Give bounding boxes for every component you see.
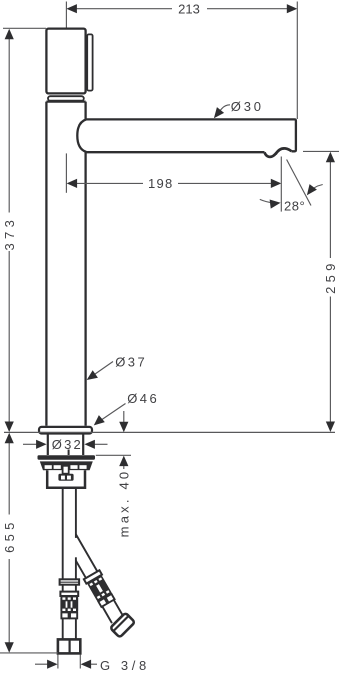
node max40 down arrow above counter	[119, 422, 128, 433]
hose diagonal crimp lower cells	[98, 598, 107, 607]
fixation seal serrations	[45, 465, 87, 469]
svg-text:213: 213	[178, 1, 200, 16]
node 213 left arrow	[66, 4, 77, 13]
svg-text:Ø30: Ø30	[231, 99, 264, 114]
hose tube lower	[63, 618, 76, 639]
wire dimension Ø32 tails	[23, 443, 108, 445]
hose diagonal braid dots bottom	[97, 590, 110, 599]
hose diagonal tube lower	[102, 600, 123, 623]
fixation clamp windows	[61, 476, 65, 480]
wire dimension G3/8 tails	[35, 663, 97, 665]
node Ø32 right arrow	[84, 440, 95, 449]
faucet spout fillet arc	[77, 119, 86, 151]
faucet pull rod stub	[68, 450, 70, 456]
wire extension line center axis below spout	[65, 153, 67, 192]
svg-text:Ø46: Ø46	[127, 391, 159, 406]
fixation seal trapezoid	[40, 461, 93, 470]
hose diagonal end nut	[110, 613, 135, 638]
svg-text:Ø32: Ø32	[52, 437, 83, 452]
fixation pull rod guide	[63, 466, 69, 474]
wire dimension line 198	[76, 182, 272, 184]
fixation washer black bar	[38, 455, 96, 460]
wire dimension line 213 horizontal at top	[76, 8, 287, 10]
node 259 bottom arrow	[326, 422, 335, 433]
hose tube between collar and crimp	[63, 585, 76, 592]
node 198 right arrow	[271, 179, 282, 188]
hose braid white slots middle	[66, 601, 68, 607]
hose braid white dots top	[62, 597, 76, 599]
wire leader line for Ø30	[217, 105, 230, 115]
hose collar nut	[60, 579, 80, 584]
node 213 right arrow	[287, 4, 298, 13]
node G3/8 left arrow	[47, 660, 58, 669]
faucet shank below counter	[47, 434, 49, 456]
hose braid block	[60, 596, 78, 612]
hose diagonal crimp collar	[84, 570, 102, 583]
svg-text:198: 198	[148, 176, 174, 191]
wire leader line for Ø46	[101, 404, 126, 421]
faucet aerator outlet wave	[265, 148, 292, 157]
svg-text:373: 373	[2, 216, 17, 251]
faucet escutcheon base plate	[39, 427, 92, 434]
faucet handle	[46, 29, 85, 94]
svg-text:28°: 28°	[284, 198, 305, 213]
faucet handle side ring	[87, 34, 92, 90]
hose diagonal braid block	[87, 575, 112, 602]
hose braid white dots bottom	[62, 609, 76, 611]
hose vertical tube upper	[63, 489, 76, 580]
wire extension line outlet level right	[303, 150, 339, 152]
wire angle arc right	[309, 185, 323, 194]
node 655 top arrow	[5, 433, 14, 444]
node G3/8 right arrow	[81, 660, 92, 669]
faucet separator band below handle	[48, 96, 84, 101]
hose diagonal end nut divider	[113, 616, 128, 631]
faucet spout bottom edge	[86, 151, 265, 153]
wire extension line hose end left	[0, 652, 58, 654]
wire extension line below aerator	[280, 157, 282, 212]
fixation clamp block	[58, 474, 73, 481]
hose diagonal tube upper	[64, 534, 97, 578]
node angle arrow right	[303, 184, 317, 198]
wire dimension line 655 vertical left	[8, 443, 10, 643]
fixation body outline	[47, 470, 85, 488]
wire dimension line max40 lower part	[123, 466, 125, 469]
svg-text:Ø37: Ø37	[115, 355, 147, 370]
hose crimp lower cells	[61, 612, 68, 618]
node 373 bottom arrow	[5, 422, 14, 433]
hose diagonal group	[61, 531, 138, 640]
hose diagonal braid dots top	[89, 577, 102, 586]
node 198 left arrow	[67, 179, 78, 188]
wire dimension line 373 vertical left	[8, 39, 10, 422]
node Ø30 arrow	[210, 107, 224, 121]
svg-text:259: 259	[323, 259, 338, 294]
node 259 top arrow	[326, 152, 335, 163]
hose diagonal braid slot	[96, 584, 103, 593]
wire dimension line max40 upper part	[123, 411, 125, 422]
node max40 up arrow below washer line	[119, 456, 128, 467]
wire dimension line 259 vertical right	[329, 162, 331, 422]
wire extension line washer level right	[96, 454, 131, 456]
wire slanted 28 degree line	[287, 160, 311, 206]
node 655 bottom arrow	[5, 642, 14, 653]
hose end nut divider	[68, 639, 70, 653]
hose crimp collar	[60, 592, 78, 596]
svg-text:max. 40: max. 40	[116, 469, 131, 538]
svg-text:655: 655	[2, 518, 17, 553]
node Ø37 arrow	[84, 370, 98, 384]
countertop line	[4, 431, 335, 433]
node Ø32 left arrow	[36, 440, 47, 449]
wire extension line handle top left	[3, 27, 46, 29]
wire extension line center axis top	[65, 2, 67, 37]
wire extension lines G3/8	[58, 655, 80, 669]
svg-text:G 3/8: G 3/8	[100, 658, 150, 673]
node angle arrow left	[270, 198, 282, 208]
wire angle arc left	[260, 199, 273, 202]
hose end nut G3/8	[58, 639, 80, 653]
wire leader line for Ø37	[92, 362, 114, 377]
node 373 top arrow	[5, 29, 14, 40]
wire extension line spout right	[296, 2, 298, 120]
node Ø46 arrow	[91, 415, 105, 429]
faucet aerator face cap	[276, 149, 284, 155]
faucet column body	[46, 102, 85, 426]
faucet spout tube	[86, 119, 296, 151]
